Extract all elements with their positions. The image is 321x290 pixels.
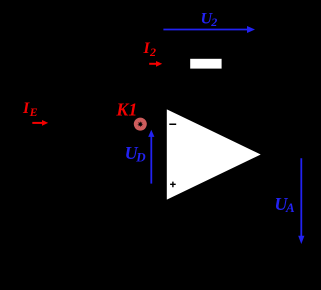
svg-text:K1: K1 bbox=[115, 100, 137, 120]
resistor R1 bbox=[60, 119, 110, 129]
svg-text:A: A bbox=[285, 200, 295, 215]
op-amp U1 bbox=[166, 109, 262, 201]
wire feedback left segment bbox=[140, 63, 190, 65]
resistor R2 bbox=[190, 58, 222, 69]
wire R2 to feedback right corner bbox=[222, 64, 280, 155]
svg-text:2: 2 bbox=[149, 45, 156, 59]
current arrow I_E bbox=[32, 120, 48, 126]
input terminal bottom bbox=[6, 253, 11, 258]
node K1 marker circle bbox=[134, 118, 147, 131]
wire input to R1 bbox=[11, 123, 61, 125]
wire node K1 up to feedback branch bbox=[139, 64, 141, 125]
input terminal top bbox=[6, 122, 11, 127]
output terminal bbox=[311, 152, 316, 157]
plus sign non-inverting input bbox=[170, 182, 176, 188]
svg-text:2: 2 bbox=[210, 15, 217, 29]
minus sign inverting input bbox=[169, 124, 176, 126]
voltage arrow U_D bbox=[148, 130, 154, 184]
wire non-inverting input bbox=[151, 184, 167, 255]
wire op-amp output bbox=[261, 154, 313, 156]
current arrow I_2 bbox=[149, 61, 162, 67]
voltage arrow U_A bbox=[298, 158, 304, 244]
svg-text:D: D bbox=[135, 149, 146, 164]
output terminal bottom bbox=[311, 253, 316, 258]
label U_2 bbox=[201, 10, 218, 29]
label U_D bbox=[125, 143, 147, 164]
node K1 junction star bbox=[137, 121, 143, 127]
wire R1 to node K1 bbox=[110, 123, 167, 125]
bottom ground rail wire bbox=[10, 254, 312, 256]
label I_2 bbox=[143, 40, 157, 59]
voltage arrow U_2 bbox=[163, 26, 255, 33]
label I_E bbox=[22, 100, 38, 119]
svg-text:E: E bbox=[29, 105, 38, 119]
junction dot output node bbox=[278, 152, 283, 157]
label U_A bbox=[274, 194, 295, 215]
